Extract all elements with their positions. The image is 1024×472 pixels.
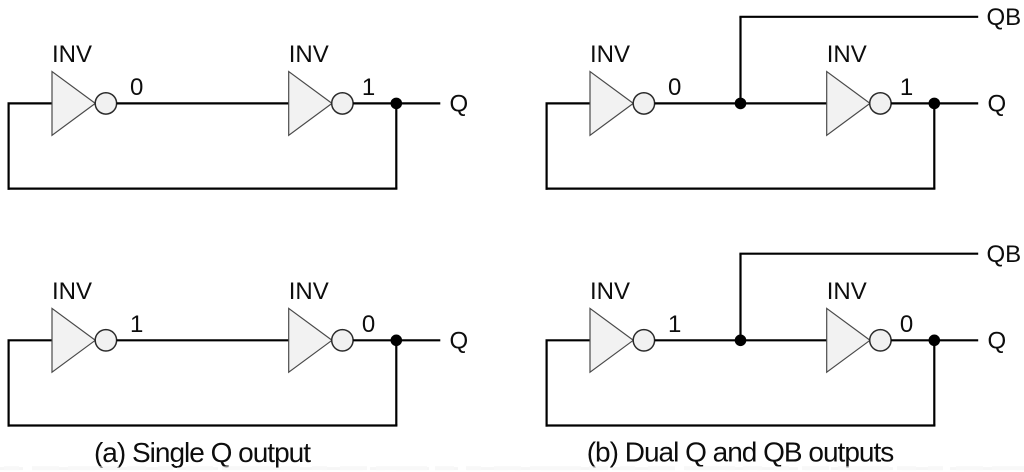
wire: feedback left vertical: [545, 340, 547, 426]
svg-text:QB: QB: [987, 4, 1022, 31]
junction dot Q node: [391, 98, 403, 110]
junction dot QB node: [735, 98, 747, 110]
svg-text:0: 0: [130, 74, 143, 101]
svg-text:INV: INV: [289, 278, 329, 305]
svg-text:(b) Dual Q and QB outputs: (b) Dual Q and QB outputs: [587, 436, 894, 467]
junction dot Q node: [929, 98, 941, 110]
svg-text:0: 0: [668, 74, 681, 101]
junction dot Q node: [929, 335, 941, 347]
junction dot Q node: [391, 335, 403, 347]
wire: input to first inverter: [546, 339, 592, 341]
wire: feedback left vertical: [8, 103, 10, 189]
svg-text:(a) Single Q output: (a) Single Q output: [94, 437, 311, 468]
wire: feedback bottom horizontal: [546, 188, 936, 190]
junction dot QB node: [735, 335, 747, 347]
wire: input to first inverter: [8, 339, 54, 341]
inverter U8 bubble: [870, 330, 891, 351]
wire: feedback right vertical (Q node down): [933, 340, 935, 425]
wire: U6 output to Q terminal: [353, 339, 440, 341]
inverter U2 bubble: [332, 93, 353, 114]
wire: U7 output to U8 input: [655, 339, 828, 341]
wire: input to first inverter: [546, 102, 592, 104]
wire: feedback right vertical (Q node down): [395, 103, 397, 188]
inverter U3 (INV) triangle: [590, 72, 633, 136]
svg-text:0: 0: [362, 311, 375, 338]
inverter U1 bubble: [95, 93, 116, 114]
inverter U6 (INV) triangle: [289, 308, 332, 372]
inverter U3 bubble: [633, 93, 654, 114]
svg-text:INV: INV: [289, 41, 329, 68]
wire: U4 output to Q terminal: [891, 102, 978, 104]
svg-text:1: 1: [362, 74, 375, 101]
wire: feedback left vertical: [8, 340, 10, 426]
svg-text:Q: Q: [450, 328, 469, 355]
svg-text:Q: Q: [988, 328, 1007, 355]
wire: feedback bottom horizontal: [8, 424, 398, 426]
svg-text:INV: INV: [52, 41, 92, 68]
svg-text:INV: INV: [52, 278, 92, 305]
inverter U2 (INV) triangle: [289, 72, 332, 136]
svg-text:1: 1: [130, 311, 143, 338]
wire: feedback left vertical: [545, 103, 547, 189]
svg-text:QB: QB: [987, 241, 1022, 268]
svg-text:0: 0: [900, 311, 913, 338]
svg-text:Q: Q: [988, 91, 1007, 118]
svg-text:1: 1: [668, 311, 681, 338]
inverter U6 bubble: [332, 330, 353, 351]
inverter U7 (INV) triangle: [590, 308, 633, 372]
wire: U2 output to Q terminal: [353, 102, 440, 104]
wire: QB vertical branch: [739, 254, 741, 341]
inverter U8 (INV) triangle: [827, 308, 870, 372]
wire: U1 output to U2 input: [117, 102, 290, 104]
wire: feedback bottom horizontal: [546, 424, 936, 426]
svg-text:INV: INV: [827, 41, 867, 68]
wire: QB horizontal to terminal: [739, 253, 978, 255]
faint compression-noise band along bottom edge: [0, 467, 1024, 470]
inverter U5 bubble: [95, 330, 116, 351]
wire: feedback bottom horizontal: [8, 188, 398, 190]
wire: U5 output to U6 input: [117, 339, 290, 341]
inverter U7 bubble: [633, 330, 654, 351]
wire: feedback right vertical (Q node down): [933, 103, 935, 188]
inverter U4 (INV) triangle: [827, 72, 870, 136]
svg-text:INV: INV: [590, 41, 630, 68]
wire: U3 output to U4 input: [655, 102, 828, 104]
wire: QB vertical branch: [739, 17, 741, 104]
inverter U5 (INV) triangle: [52, 308, 95, 372]
inverter U4 bubble: [870, 93, 891, 114]
svg-text:INV: INV: [827, 278, 867, 305]
inverter U1 (INV) triangle: [52, 72, 95, 136]
svg-text:1: 1: [900, 74, 913, 101]
wire: U8 output to Q terminal: [891, 339, 978, 341]
wire: QB horizontal to terminal: [739, 16, 978, 18]
wire: input to first inverter: [8, 102, 54, 104]
svg-text:INV: INV: [590, 278, 630, 305]
wire: feedback right vertical (Q node down): [395, 340, 397, 425]
svg-text:Q: Q: [450, 91, 469, 118]
